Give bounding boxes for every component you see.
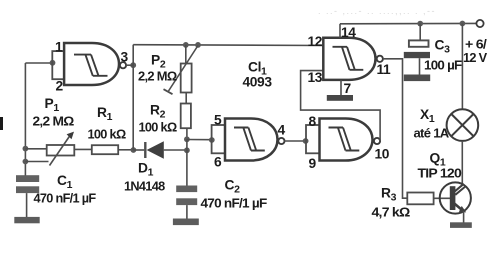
svg-text:9: 9 <box>309 156 317 171</box>
svg-text:. ..- ,...- .. ....,,.. . ,--: . ..- ,...- .. ....,,.. . ,-- <box>318 6 436 16</box>
wire gate1 output vertical <box>126 64 133 66</box>
node R1 / D1 / gate1 output <box>131 147 137 153</box>
resistor R2 <box>181 104 191 129</box>
wire pin 14 stub <box>339 24 341 38</box>
wire pin 7 stub <box>340 80 342 95</box>
terminal +V <box>476 20 483 27</box>
potentiometer P1 body <box>47 145 75 156</box>
svg-text:3: 3 <box>121 50 129 65</box>
node P1 top terminal <box>23 146 29 152</box>
node at gate1 input <box>50 60 56 66</box>
wire P1 to R1 <box>74 148 92 150</box>
U1a schmitt symbol <box>74 55 108 76</box>
resistor R1 <box>92 145 118 154</box>
potentiometer P2 <box>164 45 199 94</box>
gate U1c tie box pins 8-9 <box>306 125 320 153</box>
U1c output bubble pin 10 <box>374 138 380 144</box>
ground under C3 <box>404 75 430 82</box>
svg-text:14: 14 <box>341 25 356 40</box>
svg-text:12: 12 <box>308 34 323 49</box>
node P1 wiper junction <box>23 159 29 165</box>
node C3 top <box>417 21 423 27</box>
lamp X1 <box>447 109 479 141</box>
U1b output bubble pin 4 <box>278 138 284 144</box>
wire gate4 output to R3 <box>383 59 407 198</box>
op-gate U1b body <box>225 119 278 161</box>
resistor R3 <box>407 193 433 205</box>
op-gate U1c body <box>320 119 373 161</box>
svg-text:6: 6 <box>214 155 222 170</box>
scan mark left edge <box>0 117 3 130</box>
svg-text:7: 7 <box>344 81 352 96</box>
node P2 wiper <box>195 42 201 48</box>
ground under C1 <box>14 217 39 223</box>
node D1 anode junction <box>184 147 190 153</box>
svg-text:1N4148: 1N4148 <box>124 179 165 194</box>
U1b schmitt symbol <box>234 128 265 151</box>
wire R1 to node <box>118 149 133 151</box>
svg-text:2,2 MΩ: 2,2 MΩ <box>138 69 177 84</box>
svg-text:4: 4 <box>278 123 286 138</box>
op-gate U1a body <box>64 43 119 85</box>
potentiometer P1 arrow <box>50 132 75 166</box>
ground under C2 <box>173 219 199 226</box>
svg-text:2: 2 <box>56 79 64 94</box>
capacitor C1 <box>16 175 39 217</box>
svg-text:5: 5 <box>214 113 222 128</box>
svg-text:100 µF: 100 µF <box>424 58 462 73</box>
gate U1a tie box pins 1-2 <box>52 51 64 79</box>
U1d schmitt symbol <box>333 47 364 70</box>
svg-text:11: 11 <box>377 62 392 77</box>
ground pin 7 <box>327 95 353 101</box>
wire node down to C2 <box>186 139 188 185</box>
wire top horizontal to pin 12 <box>133 44 323 47</box>
node P2 top <box>183 42 189 48</box>
svg-text:12 V: 12 V <box>463 50 487 65</box>
svg-text:4,7 kΩ: 4,7 kΩ <box>372 205 410 220</box>
capacitor C2 <box>176 186 197 219</box>
U1a output bubble pin 3 <box>120 62 126 68</box>
wire to potentiometer P1 <box>25 148 46 150</box>
svg-text:100 kΩ: 100 kΩ <box>88 127 126 142</box>
wire gate2 output to gate3 <box>285 140 306 142</box>
wire top supply rail <box>340 22 477 24</box>
ground under Q1 <box>450 222 472 228</box>
node R2 bottom <box>184 136 190 142</box>
gate U1b tie box pins 5-6 <box>212 125 225 153</box>
node gate2 input <box>209 137 215 143</box>
svg-text:10: 10 <box>375 147 390 162</box>
svg-text:2,2 MΩ: 2,2 MΩ <box>33 114 74 129</box>
svg-text:8: 8 <box>309 114 317 129</box>
node gate3 input <box>303 138 309 144</box>
diode D1 <box>133 141 187 158</box>
wire lamp drop <box>461 24 463 110</box>
U1c schmitt symbol <box>329 128 360 151</box>
node gate1 output <box>130 62 136 68</box>
svg-text:TIP 120: TIP 120 <box>418 166 462 181</box>
wire feedback gate3 output to gate4 pin13 <box>301 71 381 141</box>
svg-text:4093: 4093 <box>243 75 273 90</box>
wire R2 to node <box>186 128 188 139</box>
wire left vertical rail <box>24 63 26 176</box>
capacitor C3 <box>404 24 430 75</box>
wire lamp to collector <box>461 141 463 184</box>
svg-text:13: 13 <box>308 70 323 85</box>
U1d output bubble pin 11 <box>377 56 383 62</box>
op-gate U1d body <box>323 38 375 80</box>
svg-text:470 nF/1 µF: 470 nF/1 µF <box>34 191 97 206</box>
wire gate1 input from left <box>25 62 52 64</box>
svg-text:1: 1 <box>55 40 63 55</box>
svg-text:100 kΩ: 100 kΩ <box>139 120 177 135</box>
svg-text:até 1A: até 1A <box>414 126 450 141</box>
wire R3 to Q1 base <box>434 197 450 199</box>
wire P1 wiper <box>25 161 48 163</box>
wire P2 to R2 <box>185 93 187 104</box>
wire node to gate2 input <box>187 139 212 141</box>
svg-text:470 nF/1 µF: 470 nF/1 µF <box>201 196 268 211</box>
node lamp top <box>460 21 466 27</box>
transistor Q1 <box>440 182 471 222</box>
